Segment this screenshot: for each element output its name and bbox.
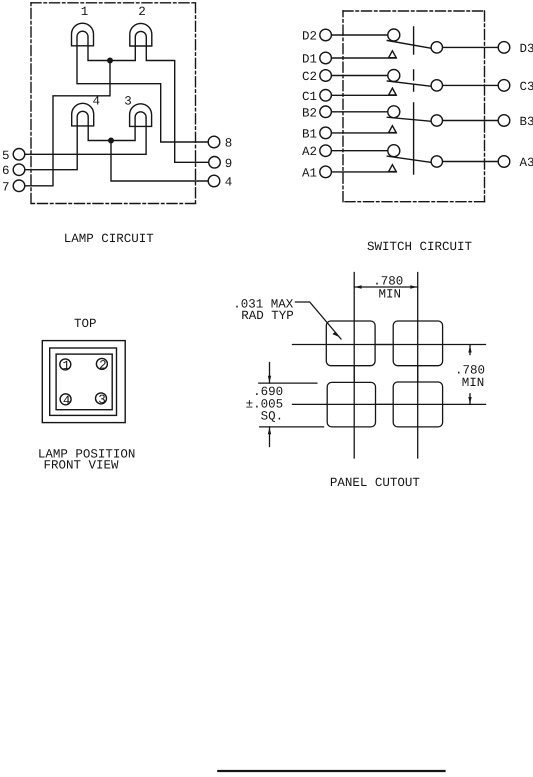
re-draw centerline crossings over squares <box>353 321 355 427</box>
switch A blade <box>387 156 431 162</box>
wire DS3 right leg to pin 5 <box>25 126 146 154</box>
switch A throw triangle <box>389 165 397 172</box>
switch C throw triangle <box>389 88 397 95</box>
SWITCH CIRCUIT SECTION <box>320 11 510 202</box>
dimension arrow left <box>355 285 362 288</box>
svg-text:4: 4 <box>225 176 233 190</box>
svg-text:B1: B1 <box>302 127 317 141</box>
svg-text:1: 1 <box>63 359 71 373</box>
svg-text:D3: D3 <box>520 42 533 56</box>
front view lamp 4 circle <box>60 394 71 405</box>
switch A wire to terminal A3 <box>437 161 504 163</box>
dimension line .780 vertical right (lower) <box>469 394 471 405</box>
svg-text:B2: B2 <box>302 106 317 120</box>
svg-text:MIN: MIN <box>378 288 401 302</box>
terminal C2 <box>320 70 332 82</box>
dimension arrow down to top ext <box>268 376 271 383</box>
svg-text:C1: C1 <box>302 90 317 104</box>
cutout square top-left <box>326 321 375 366</box>
panel cutout horizontal centerline top <box>293 344 486 346</box>
dimension line .690 upper <box>269 363 271 384</box>
switch D throw triangle <box>389 51 397 58</box>
LAMP POSITION FRONT VIEW SECTION <box>42 341 125 423</box>
dimension line .780 vertical right (upper) <box>469 345 471 354</box>
lamp DS3 <box>130 104 152 127</box>
svg-text:9: 9 <box>225 157 233 171</box>
svg-text:D2: D2 <box>302 30 317 44</box>
wire DS3 left leg to node J2 <box>111 126 135 140</box>
cutout square bottom-left <box>327 382 375 427</box>
cutout square top-right <box>393 321 442 366</box>
wire node J2 to pin 4 <box>111 141 208 182</box>
switch A wire A1 to throw <box>326 171 397 173</box>
terminal A2 <box>320 145 332 157</box>
terminal B1 <box>320 127 332 139</box>
terminal C3 <box>498 80 510 92</box>
page footer rule <box>218 770 444 772</box>
svg-text:3: 3 <box>124 94 132 108</box>
pin 7 terminal <box>13 180 25 192</box>
dimension line .690 lower <box>269 427 271 447</box>
front view lamp 1 circle <box>60 359 71 370</box>
svg-text:PANEL CUTOUT: PANEL CUTOUT <box>330 476 421 490</box>
switch B wire to terminal B3 <box>437 120 504 122</box>
terminal D2 <box>320 29 332 41</box>
wire DS1 left leg to pin 8 <box>77 46 208 142</box>
svg-text:5: 5 <box>2 149 10 163</box>
terminal B3 <box>498 115 510 127</box>
svg-text:D1: D1 <box>302 53 317 67</box>
lamp DS2 <box>130 23 152 46</box>
switch C wires: C2 to moving contact <box>326 75 394 77</box>
panel cutout horizontal centerline bottom <box>293 403 486 405</box>
switch C wire to terminal C3 <box>437 84 504 86</box>
wire node J1 down-left to pin 7 <box>25 61 110 186</box>
svg-text:4: 4 <box>63 394 71 408</box>
svg-text:A1: A1 <box>302 166 317 180</box>
svg-text:C3: C3 <box>520 80 533 94</box>
switch D fixed contact <box>431 42 442 53</box>
node J2 junction dot <box>109 138 114 143</box>
terminal D1 <box>320 52 332 64</box>
svg-text:A3: A3 <box>520 156 533 170</box>
extension line .690 bottom <box>260 426 324 428</box>
svg-text:7: 7 <box>2 180 10 194</box>
switch B fixed contact <box>431 115 442 126</box>
svg-text:SWITCH CIRCUIT: SWITCH CIRCUIT <box>367 240 473 254</box>
svg-text:4: 4 <box>93 94 101 108</box>
front view lamp 2 circle <box>96 358 107 369</box>
svg-text:LAMP CIRCUIT: LAMP CIRCUIT <box>64 232 155 246</box>
wire DS2 right leg to pin 9 <box>146 46 208 162</box>
switch B wires: B2 to moving contact <box>326 111 394 113</box>
panel cutout vertical centerline left <box>353 273 355 459</box>
dimension arrow up to bottom ext <box>268 428 271 435</box>
switch D wire to terminal D3 <box>437 46 504 48</box>
front view outer bezel <box>42 341 125 423</box>
switch B wire B1 to throw <box>326 132 397 134</box>
terminal D3 <box>498 42 510 54</box>
switch C moving contact <box>388 70 400 82</box>
LAMP CIRCUIT SECTION <box>13 3 220 204</box>
switch D wire D1 to throw <box>326 57 397 59</box>
front view inner face <box>56 354 112 410</box>
terminal A3 <box>498 156 510 168</box>
svg-text:B3: B3 <box>520 115 533 129</box>
switch B throw triangle <box>389 126 397 133</box>
terminal C1 <box>320 90 332 102</box>
leader arrowhead <box>332 332 338 337</box>
svg-text:C2: C2 <box>302 70 317 84</box>
svg-text:6: 6 <box>2 164 10 178</box>
wire DS2 left leg to node J1 <box>110 46 135 61</box>
pin 5 terminal <box>13 149 25 161</box>
PANEL CUTOUT SECTION <box>259 273 486 459</box>
dimension line .780 horizontal <box>354 286 418 288</box>
front view middle bezel <box>50 348 117 415</box>
wire DS4 left leg to pin 6 <box>25 126 77 170</box>
switch D moving contact <box>388 29 400 41</box>
svg-text:RAD TYP: RAD TYP <box>241 309 294 323</box>
svg-text:.780: .780 <box>373 275 403 289</box>
svg-text:A2: A2 <box>302 145 317 159</box>
lamp DS4 <box>72 103 94 126</box>
leader line .031 MAX RAD TYP <box>295 302 341 339</box>
panel cutout vertical centerline right <box>417 273 419 459</box>
pin 8 terminal <box>208 136 220 148</box>
lamp DS1 <box>72 23 94 46</box>
node J1 junction dot <box>108 58 113 63</box>
terminal B2 <box>320 106 332 118</box>
svg-text:8: 8 <box>225 137 233 151</box>
svg-text:SQ.: SQ. <box>261 410 284 424</box>
dimension arrow up <box>468 346 471 353</box>
dimension arrow down <box>468 397 471 404</box>
pin 4 terminal <box>208 175 220 187</box>
svg-text:2: 2 <box>138 5 146 19</box>
svg-text:1: 1 <box>81 5 89 19</box>
svg-text:3: 3 <box>98 393 106 407</box>
pin 6 terminal <box>13 164 25 176</box>
switch circuit enclosure (dash-dot box) <box>343 11 485 202</box>
svg-text:2: 2 <box>99 359 107 373</box>
switch A moving contact <box>388 145 400 157</box>
switch A wires: A2 to moving contact <box>326 150 394 152</box>
switch common centerline <box>413 27 415 174</box>
terminal A1 <box>320 166 332 178</box>
extension line .690 top <box>259 382 317 384</box>
svg-text:TOP: TOP <box>74 317 97 331</box>
switch C blade <box>387 81 431 86</box>
switch D blade <box>387 41 431 49</box>
switch A fixed contact <box>431 156 442 167</box>
switch B blade <box>387 117 431 121</box>
switch C wire C1 to throw <box>326 94 397 96</box>
lamp circuit enclosure (dash-dot box) <box>31 3 196 204</box>
pin 9 terminal <box>209 157 221 169</box>
front view lamp 3 circle <box>96 393 107 404</box>
svg-text:MIN: MIN <box>462 376 485 390</box>
wire DS1 right leg to node J1 <box>88 46 110 61</box>
wire DS4 right leg to node J2 <box>88 126 111 141</box>
switch C fixed contact <box>431 80 442 91</box>
svg-text:FRONT VIEW: FRONT VIEW <box>43 459 119 473</box>
switch B moving contact <box>388 106 400 118</box>
dimension arrow right <box>410 285 417 288</box>
switch D wires: D2 to moving contact <box>326 34 394 36</box>
cutout square bottom-right <box>393 382 442 427</box>
